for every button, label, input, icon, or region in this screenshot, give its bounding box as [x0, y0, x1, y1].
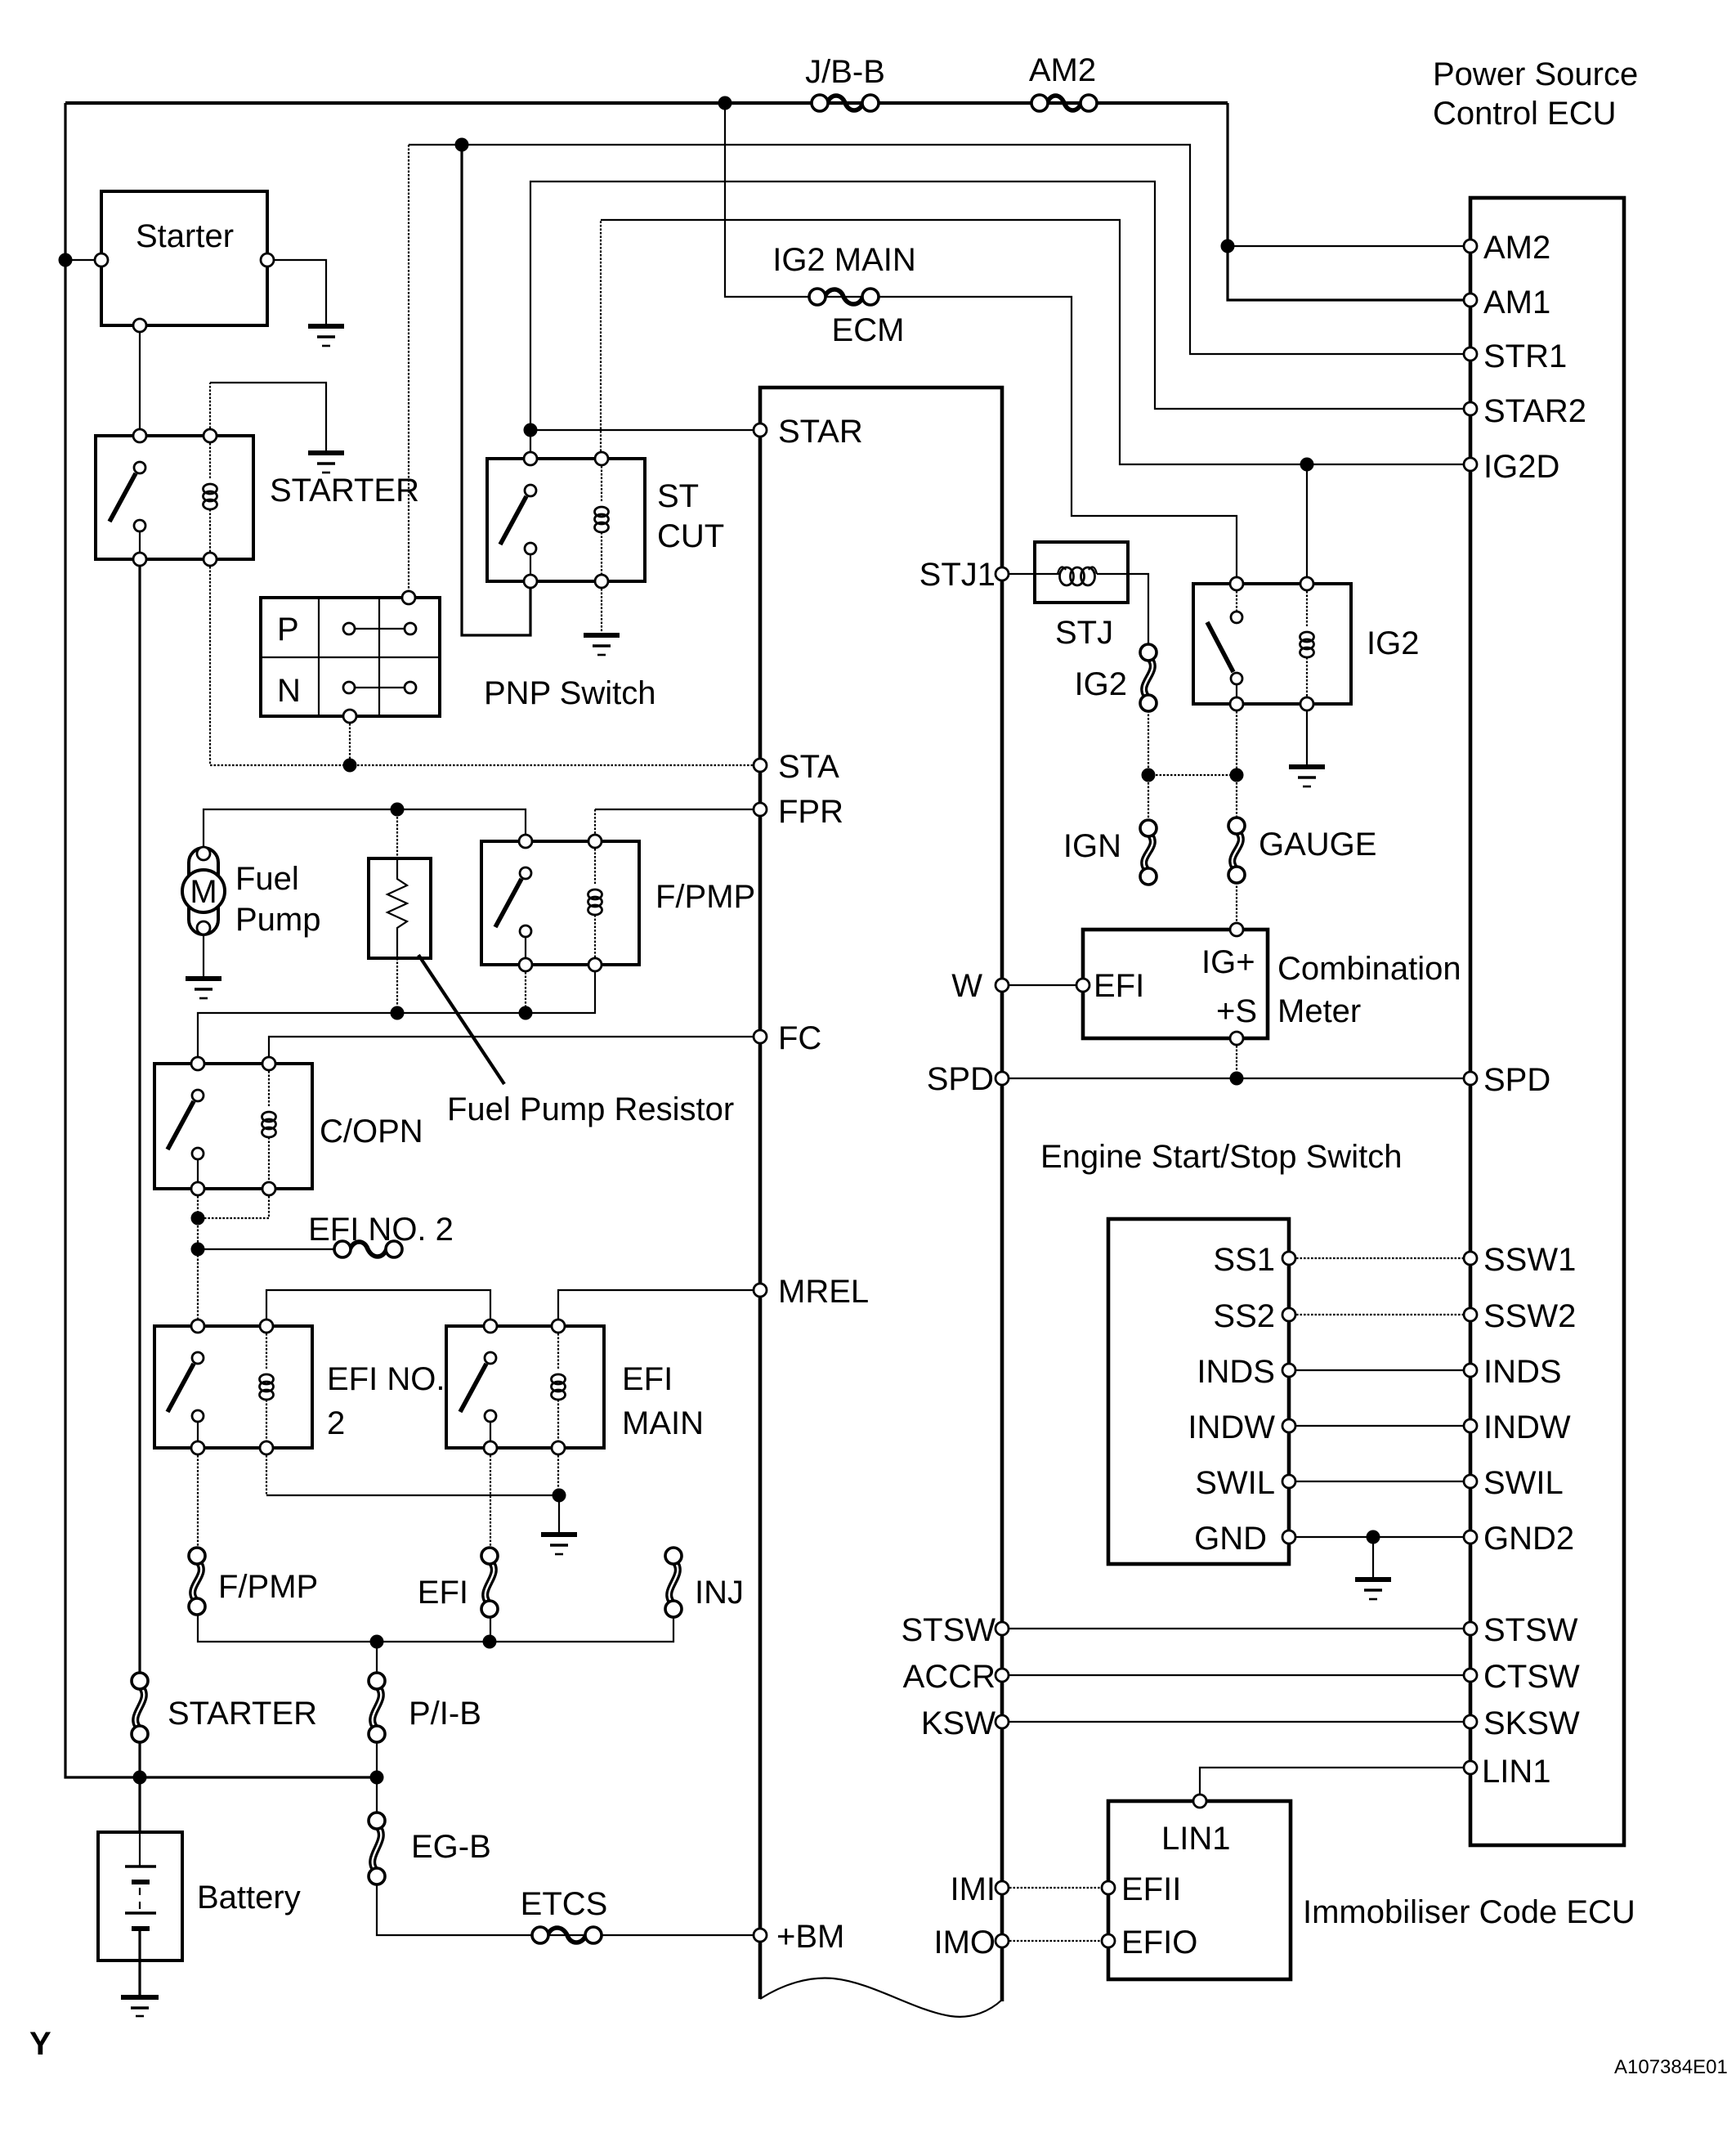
svg-text:INDW: INDW — [1483, 1409, 1571, 1445]
svg-text:IGN: IGN — [1063, 828, 1121, 864]
svg-text:EFIO: EFIO — [1121, 1925, 1197, 1960]
svg-text:INJ: INJ — [695, 1575, 744, 1611]
svg-text:Engine Start/Stop Switch: Engine Start/Stop Switch — [1040, 1139, 1402, 1175]
svg-text:ACCR: ACCR — [903, 1659, 996, 1695]
svg-text:SSW1: SSW1 — [1483, 1242, 1576, 1278]
svg-text:Fuel Pump Resistor: Fuel Pump Resistor — [447, 1091, 734, 1127]
svg-text:SWIL: SWIL — [1195, 1465, 1275, 1501]
svg-text:J/B-B: J/B-B — [805, 54, 885, 90]
svg-text:EFI: EFI — [418, 1575, 468, 1611]
svg-text:FC: FC — [778, 1020, 821, 1056]
svg-text:SS1: SS1 — [1213, 1242, 1275, 1278]
svg-text:F/PMP: F/PMP — [218, 1569, 318, 1605]
svg-text:FPR: FPR — [778, 794, 843, 830]
svg-text:A107384E01: A107384E01 — [1614, 2056, 1728, 2078]
svg-text:Meter: Meter — [1277, 993, 1361, 1029]
svg-text:IG2D: IG2D — [1483, 449, 1559, 485]
svg-text:EG-B: EG-B — [411, 1829, 491, 1865]
svg-text:W: W — [951, 968, 982, 1004]
svg-text:IG2: IG2 — [1367, 625, 1419, 661]
svg-text:KSW: KSW — [921, 1705, 996, 1741]
svg-text:M: M — [190, 874, 217, 910]
svg-text:Fuel: Fuel — [235, 861, 299, 897]
svg-text:Control ECU: Control ECU — [1433, 96, 1617, 132]
svg-text:ETCS: ETCS — [521, 1886, 608, 1922]
svg-text:IG2: IG2 — [1075, 666, 1127, 702]
svg-text:EFI: EFI — [1094, 968, 1144, 1004]
svg-text:EFI NO.: EFI NO. — [327, 1361, 445, 1397]
svg-text:INDS: INDS — [1483, 1354, 1562, 1390]
svg-text:STAR2: STAR2 — [1483, 393, 1586, 429]
svg-text:CTSW: CTSW — [1483, 1659, 1580, 1695]
svg-text:IMI: IMI — [950, 1871, 996, 1907]
svg-text:+S: +S — [1216, 993, 1257, 1029]
svg-text:SS2: SS2 — [1213, 1298, 1275, 1334]
svg-text:STJ: STJ — [1055, 615, 1113, 651]
svg-text:STARTER: STARTER — [270, 473, 419, 509]
svg-text:INDS: INDS — [1197, 1354, 1275, 1390]
svg-text:EFI: EFI — [622, 1361, 673, 1397]
svg-text:EFI NO. 2: EFI NO. 2 — [308, 1212, 454, 1248]
svg-text:SSW2: SSW2 — [1483, 1298, 1576, 1334]
svg-text:ST: ST — [657, 478, 699, 514]
svg-text:STR1: STR1 — [1483, 338, 1567, 374]
svg-text:GND: GND — [1194, 1521, 1267, 1557]
svg-text:STA: STA — [778, 749, 839, 785]
svg-text:MAIN: MAIN — [622, 1405, 704, 1441]
svg-text:STSW: STSW — [1483, 1612, 1578, 1648]
svg-text:N: N — [277, 673, 301, 709]
svg-text:LIN1: LIN1 — [1161, 1821, 1231, 1857]
svg-text:CUT: CUT — [657, 518, 724, 554]
svg-text:SWIL: SWIL — [1483, 1465, 1564, 1501]
svg-text:Combination: Combination — [1277, 951, 1461, 987]
svg-text:SPD: SPD — [927, 1061, 994, 1097]
svg-text:STARTER: STARTER — [168, 1696, 317, 1732]
svg-text:Power Source: Power Source — [1433, 56, 1638, 92]
svg-text:+BM: +BM — [776, 1919, 844, 1955]
svg-text:MREL: MREL — [778, 1274, 869, 1310]
svg-text:2: 2 — [327, 1405, 345, 1441]
svg-text:Battery: Battery — [197, 1880, 301, 1916]
svg-text:P/I-B: P/I-B — [409, 1696, 481, 1732]
svg-text:Starter: Starter — [136, 218, 234, 254]
svg-text:Immobiliser Code ECU: Immobiliser Code ECU — [1303, 1894, 1635, 1930]
svg-text:AM1: AM1 — [1483, 285, 1550, 320]
svg-text:SKSW: SKSW — [1483, 1705, 1580, 1741]
svg-text:PNP Switch: PNP Switch — [484, 675, 655, 711]
svg-text:C/OPN: C/OPN — [320, 1114, 423, 1149]
svg-text:STSW: STSW — [901, 1612, 996, 1648]
svg-text:AM2: AM2 — [1029, 52, 1096, 88]
svg-text:Y: Y — [29, 2026, 51, 2062]
svg-text:STAR: STAR — [778, 414, 863, 450]
svg-text:LIN1: LIN1 — [1482, 1754, 1551, 1790]
svg-text:F/PMP: F/PMP — [655, 879, 755, 915]
svg-text:Pump: Pump — [235, 902, 321, 938]
svg-text:IG2 MAIN: IG2 MAIN — [772, 242, 916, 278]
svg-text:AM2: AM2 — [1483, 230, 1550, 266]
svg-text:IG+: IG+ — [1201, 944, 1255, 980]
svg-text:P: P — [277, 612, 299, 648]
svg-text:EFII: EFII — [1121, 1871, 1181, 1907]
svg-text:IMO: IMO — [933, 1925, 996, 1960]
svg-text:GND2: GND2 — [1483, 1521, 1574, 1557]
svg-text:SPD: SPD — [1483, 1062, 1550, 1098]
svg-text:GAUGE: GAUGE — [1259, 827, 1376, 863]
svg-text:STJ1: STJ1 — [919, 557, 996, 593]
svg-text:ECM: ECM — [832, 312, 905, 348]
svg-text:INDW: INDW — [1188, 1409, 1275, 1445]
